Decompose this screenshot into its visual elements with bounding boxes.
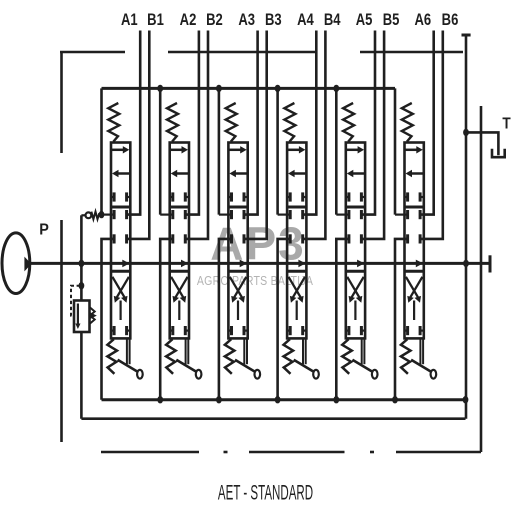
relief valve spring — [90, 308, 95, 324]
section 4 neutral through-path line — [287, 206, 306, 209]
svg-text:T: T — [502, 116, 510, 133]
section 3 lower divider — [228, 270, 247, 273]
enclosure dashed border left — [60, 52, 63, 153]
section 2 closed ports row 1 — [170, 196, 173, 198]
section 4 float passage stub — [296, 301, 298, 321]
section 1 crossed arrows — [112, 277, 124, 298]
section 4 control lever — [294, 360, 313, 372]
section 1 closed ports row 4 — [111, 330, 114, 332]
section 6 centering spring (top) — [402, 103, 413, 142]
section 4 position-1 arrow right — [288, 149, 300, 152]
section 3 closed ports row 4 — [228, 330, 231, 332]
section 6 neutral through-path line — [405, 206, 424, 209]
section 3 position-1 arrow left — [235, 172, 247, 175]
svg-text:B1: B1 — [147, 12, 164, 30]
section 5 crossed arrows — [347, 277, 359, 298]
svg-text:A3: A3 — [238, 12, 255, 30]
wire: pressure line P — [31, 262, 491, 265]
junction dot: top bus / section 3 drop — [216, 85, 222, 92]
section 4 crossed arrows — [289, 277, 301, 298]
wire: service line B2 — [185, 31, 208, 239]
wire: section 4 supply drop upper — [276, 88, 279, 214]
section 1 position-1 arrow right — [112, 149, 124, 152]
valve section 1 envelope — [111, 143, 130, 339]
section 3 closed ports row 3 — [230, 234, 233, 243]
section 1 neutral through-path line — [111, 206, 130, 209]
section 3 neutral through-path line — [228, 206, 247, 209]
section 6 open-center flow arrow — [416, 260, 423, 268]
section 1 centering spring (top) — [108, 103, 119, 142]
section 6 closed ports row 3 — [406, 234, 409, 243]
svg-text:P: P — [39, 221, 49, 239]
svg-text:A2: A2 — [180, 12, 197, 30]
junction dot: bottom bus / section 5 drop — [333, 396, 339, 403]
section 6 float passage stub — [413, 301, 415, 321]
section 3 control lever — [235, 360, 254, 372]
wire: section 3 feed stub — [219, 214, 232, 216]
section 5 closed ports row 3 — [347, 234, 350, 243]
section 2 control lever — [176, 360, 195, 372]
section 1 open-center flow arrow — [122, 260, 129, 268]
wire: relief branch from P line — [80, 263, 83, 300]
section 4 centering spring (top) — [284, 103, 295, 142]
wire: service line B6 — [420, 31, 443, 239]
section 2 closed ports row 4 — [170, 330, 173, 332]
junction dot: bottom bus / section 3 drop — [216, 396, 222, 403]
pilot line (dashed) to relief valve — [71, 286, 80, 316]
pump P circle — [2, 233, 30, 294]
wire: relief valve outlet to return — [80, 332, 83, 419]
section 5 neutral through-path line — [346, 206, 365, 209]
junction dot: bottom bus / section 2 drop — [157, 396, 163, 403]
junction dot: top bus / section 4 drop — [275, 85, 281, 92]
junction dot: bottom bus / section 6 drop — [392, 396, 398, 403]
wire: tank return line — [81, 417, 465, 420]
section 2 closed ports row 2 — [171, 210, 174, 219]
wire: bottom tank bus — [102, 398, 466, 401]
wire: branch to tank symbol — [466, 132, 498, 155]
section 1 lower divider — [111, 270, 130, 273]
wire: check valve riser — [80, 215, 83, 263]
section 1 return spring (bottom) — [107, 339, 117, 374]
enclosure dashed border bottom — [101, 451, 199, 454]
section 4 closed ports row 2 — [289, 210, 292, 219]
wire: service line A3 — [244, 31, 258, 215]
section 5 float passage stub — [354, 301, 356, 321]
wire: section 2 supply drop lower — [160, 239, 173, 400]
section 3 lever linkage — [243, 338, 245, 364]
relief valve flow arrow — [77, 304, 79, 325]
section 2 float passage stub — [178, 301, 180, 321]
section 6 closed ports row 4 — [405, 330, 408, 332]
wire: section 6 feed stub — [395, 214, 408, 216]
wire: section 3 supply drop lower — [219, 239, 232, 400]
section 6 return spring (bottom) — [401, 339, 411, 374]
section 5 lower divider — [346, 270, 365, 273]
section 2 centering spring (top) — [167, 103, 178, 142]
section 3 float passage stub — [237, 301, 239, 321]
section 6 lower divider — [405, 270, 424, 273]
svg-text:B6: B6 — [442, 12, 459, 30]
wire: service line B5 — [361, 31, 384, 239]
section 2 position-1 arrow right — [171, 149, 183, 152]
junction dot: P line / relief branch — [79, 260, 85, 267]
junction dot: riser / tank branch — [463, 129, 469, 136]
section 3 open-center flow arrow — [240, 260, 247, 268]
junction dot: riser / P line — [463, 260, 469, 267]
section 5 return spring (bottom) — [342, 339, 352, 374]
wire: section 3 supply drop upper — [218, 88, 221, 214]
wire: section 4 feed stub — [278, 214, 291, 216]
wire: section 2 supply drop upper — [159, 88, 162, 214]
section 5 position-1 arrow right — [347, 149, 359, 152]
junction dot: top bus / section 2 drop — [157, 85, 163, 92]
wire: section 4 supply drop lower — [278, 239, 291, 400]
section 3 crossed arrows — [230, 277, 242, 298]
section 2 crossed arrows — [171, 277, 183, 298]
section 4 position-1 arrow left — [294, 172, 306, 175]
section 1 position-1 arrow left — [118, 172, 130, 175]
section 4 closed ports row 1 — [287, 196, 290, 198]
relief valve body — [74, 301, 90, 333]
wire: service line B1 — [127, 31, 150, 239]
section 3 closed ports row 2 — [230, 210, 233, 219]
relief valve setting arrow — [91, 313, 97, 319]
valve section 3 envelope — [228, 143, 247, 339]
valve section 4 envelope — [287, 143, 306, 339]
wire: section 1 supply drop lower — [102, 239, 115, 400]
wire: service line A1 — [127, 31, 141, 215]
section 3 return spring (bottom) — [225, 339, 235, 374]
section 5 open-center flow arrow — [357, 260, 364, 268]
inlet check valve ball — [86, 212, 92, 218]
section 5 closed ports row 1 — [346, 196, 349, 198]
section 5 closed ports row 2 — [347, 210, 350, 219]
section 2 lower divider — [170, 270, 189, 273]
wire: section 5 feed stub — [336, 214, 349, 216]
svg-text:B5: B5 — [383, 12, 400, 30]
pump flow arrow — [24, 257, 31, 272]
enclosure dashed border right — [480, 106, 483, 452]
wire: service line B4 — [303, 31, 326, 239]
wire: service line A4 — [303, 31, 317, 215]
section 5 lever linkage — [361, 338, 363, 364]
junction dot: top bus / section 5 drop — [333, 85, 339, 92]
inlet check valve stub — [81, 214, 85, 216]
section 5 closed ports row 4 — [346, 330, 349, 332]
enclosure dashed border top — [60, 51, 125, 54]
valve section 5 envelope — [346, 143, 365, 339]
section 1 closed ports row 2 — [113, 210, 116, 219]
wire: right tank riser — [465, 35, 468, 419]
section 2 lever linkage — [185, 338, 187, 364]
section 5 centering spring (top) — [343, 103, 354, 142]
inlet check valve spring — [91, 212, 99, 220]
wire: open-center top bus — [102, 87, 396, 90]
wire: service line A6 — [420, 31, 434, 215]
section 4 open-center flow arrow — [298, 260, 305, 268]
wire: section 1 supply drop upper — [100, 88, 103, 214]
svg-text:A4: A4 — [297, 12, 314, 30]
svg-text:A6: A6 — [414, 12, 431, 30]
svg-text:A1: A1 — [121, 12, 138, 30]
section 3 closed ports row 1 — [228, 196, 231, 198]
section 1 float passage stub — [119, 301, 121, 321]
wire: service line A2 — [185, 31, 199, 215]
section 2 open-center flow arrow — [181, 260, 188, 268]
wire: section 6 supply drop lower — [395, 239, 408, 400]
section 4 closed ports row 3 — [289, 234, 292, 243]
svg-text:B2: B2 — [206, 12, 223, 30]
valve section 6 envelope — [405, 143, 424, 339]
wire: section 1 feed stub — [102, 214, 115, 216]
valve section 2 envelope — [170, 143, 189, 339]
wire: section 5 supply drop lower — [336, 239, 349, 400]
closed port cap on riser top — [462, 34, 471, 37]
section 6 crossed arrows — [406, 277, 418, 298]
section 2 neutral through-path line — [170, 206, 189, 209]
svg-text:B4: B4 — [324, 12, 341, 30]
svg-text:AGRO PARTS BALTIJA: AGRO PARTS BALTIJA — [197, 273, 313, 288]
section 2 return spring (bottom) — [166, 339, 176, 374]
section 3 position-1 arrow right — [229, 149, 241, 152]
wire: service line B3 — [244, 31, 267, 239]
wire: section 2 feed stub — [160, 214, 173, 216]
section 3 centering spring (top) — [226, 103, 237, 142]
section 6 closed ports row 2 — [406, 210, 409, 219]
junction dot: bottom bus / section 4 drop — [275, 396, 281, 403]
section 1 lever linkage — [126, 338, 128, 364]
junction dot: relief pilot tap — [79, 282, 85, 289]
section 4 return spring (bottom) — [284, 339, 294, 374]
wire: section 6 supply drop upper — [394, 88, 397, 214]
section 1 closed ports row 1 — [111, 196, 114, 198]
section 2 position-1 arrow left — [176, 172, 188, 175]
svg-text:A5: A5 — [356, 12, 373, 30]
section 1 control lever — [118, 360, 137, 372]
section 2 closed ports row 3 — [171, 234, 174, 243]
section 6 closed ports row 1 — [405, 196, 408, 198]
section 5 position-1 arrow left — [353, 172, 365, 175]
section 4 lower divider — [287, 270, 306, 273]
section 6 position-1 arrow left — [411, 172, 423, 175]
section 6 lever linkage — [419, 338, 421, 364]
tank symbol — [492, 149, 505, 158]
section 4 closed ports row 4 — [287, 330, 290, 332]
wire: section 5 supply drop upper — [335, 88, 338, 214]
section 1 closed ports row 3 — [113, 234, 116, 243]
junction dot: section 1 feed / check valve — [99, 211, 105, 218]
blocked carry-over port bar at P line end — [489, 255, 492, 272]
section 4 lever linkage — [302, 338, 304, 364]
svg-text:B3: B3 — [265, 12, 282, 30]
wire: service line A5 — [361, 31, 375, 215]
svg-text:AET - STANDARD: AET - STANDARD — [218, 481, 313, 505]
section 6 control lever — [411, 360, 430, 372]
junction dot: riser / bottom bus — [463, 396, 469, 403]
section 6 position-1 arrow right — [406, 149, 418, 152]
section 5 control lever — [352, 360, 371, 372]
